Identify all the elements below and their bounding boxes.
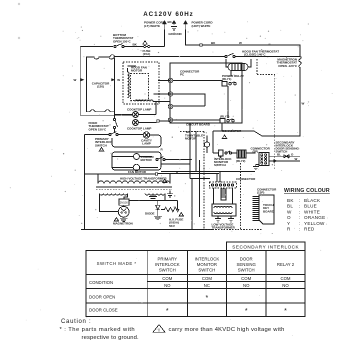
fan switch S3 xyxy=(156,157,165,161)
wire interlock feed xyxy=(85,129,115,135)
svg-text:W: W xyxy=(117,78,120,82)
warning triangle under board xyxy=(222,135,226,139)
warning triangle xyxy=(99,148,103,152)
power cord arrow right xyxy=(184,21,188,30)
svg-text:MOTOR: MOTOR xyxy=(185,137,197,141)
connector 6P dashed box xyxy=(210,182,237,188)
svg-text:RED: RED xyxy=(304,227,315,232)
svg-text:W: W xyxy=(74,78,77,82)
svg-text:Caution :: Caution : xyxy=(61,319,91,325)
primary interlock switch S2 xyxy=(109,132,118,136)
bottom border wire xyxy=(81,229,213,231)
wire relay1 to relay2 inside board xyxy=(227,86,229,118)
grounds under LV transformer xyxy=(215,216,234,222)
svg-text:(120): (120) xyxy=(97,85,104,89)
svg-text:(LT) WHITE: (LT) WHITE xyxy=(144,24,160,28)
bus wires to right section xyxy=(158,172,255,179)
svg-text:INTERLOCK: INTERLOCK xyxy=(195,257,220,262)
wire heater xyxy=(226,59,251,67)
svg-text::: : xyxy=(299,209,301,214)
wire node down xyxy=(85,173,156,175)
wire thermostat to right border xyxy=(235,47,300,57)
svg-text::: : xyxy=(299,198,301,203)
svg-text:* : The parts marked with: * : The parts marked with xyxy=(60,327,136,333)
svg-text:Y: Y xyxy=(203,167,205,171)
wire board to monitor row xyxy=(221,123,223,131)
svg-text:ORANGE: ORANGE xyxy=(304,215,325,220)
svg-text:W: W xyxy=(287,209,292,214)
wires connector to LV transformer xyxy=(214,172,233,205)
svg-text:NO: NO xyxy=(243,283,250,288)
svg-text:COOKTOP LAMP: COOKTOP LAMP xyxy=(127,127,151,131)
svg-text:*: * xyxy=(166,308,169,315)
connector pins on board edge xyxy=(168,78,172,122)
svg-text:Y: Y xyxy=(287,221,290,226)
svg-text:RELAY 2: RELAY 2 xyxy=(277,262,295,267)
scan dot 1 xyxy=(18,3,20,5)
hood fan motor coil horizontal xyxy=(135,100,153,101)
connector node xyxy=(157,120,160,123)
svg-text:OPEN -120°C: OPEN -120°C xyxy=(278,64,298,68)
svg-text:CONNECTOR: CONNECTOR xyxy=(236,177,256,181)
dashed horizontal partition xyxy=(257,74,275,76)
connector node xyxy=(155,173,158,176)
arrow into capacitor right xyxy=(111,78,115,81)
svg-text:SWITCH MADE *: SWITCH MADE * xyxy=(97,261,137,266)
svg-text:5KV: 5KV xyxy=(169,224,175,228)
svg-text:SWITCH: SWITCH xyxy=(95,143,107,147)
svg-text:WHITE: WHITE xyxy=(304,209,320,214)
lamp wires xyxy=(115,115,157,123)
vertical wire x192 xyxy=(190,123,196,230)
power relay RLY1 xyxy=(222,74,244,86)
svg-text:respective to ground.: respective to ground. xyxy=(82,335,140,341)
hood fan motor box xyxy=(123,62,159,104)
wire cap to magnetron xyxy=(123,205,125,206)
svg-text:*: * xyxy=(245,308,248,315)
heater oval hatched xyxy=(228,64,248,71)
arrow on lower wire xyxy=(273,159,277,162)
svg-text:DOOR OPEN: DOOR OPEN xyxy=(89,294,115,299)
svg-text:AC120V 60Hz: AC120V 60Hz xyxy=(143,11,194,18)
dashed vertical right of LV xyxy=(240,163,242,230)
svg-text:2M100: 2M100 xyxy=(120,201,128,205)
svg-text:GROUND: GROUND xyxy=(168,32,182,36)
cavity lamp L3 xyxy=(143,132,149,138)
wires motor to board xyxy=(128,66,171,102)
svg-text:PRIMARY: PRIMARY xyxy=(158,257,178,262)
hood fan motor inner box xyxy=(131,74,149,101)
svg-text:BK: BK xyxy=(287,198,294,203)
valve symbol on wire xyxy=(284,155,289,158)
svg-text:BL: BL xyxy=(287,204,293,209)
svg-text:MOTOR: MOTOR xyxy=(131,69,143,73)
HV capacitor box xyxy=(119,199,129,205)
svg-text:NC: NC xyxy=(204,283,210,288)
svg-text:BL: BL xyxy=(277,153,281,157)
svg-text:DOOR: DOOR xyxy=(240,257,253,262)
svg-text:DIODE: DIODE xyxy=(145,212,155,216)
svg-text:(5P): (5P) xyxy=(253,150,259,154)
svg-text:BLACK: BLACK xyxy=(304,198,321,203)
svg-text:OPEN 150°C: OPEN 150°C xyxy=(89,127,108,131)
ground symbol xyxy=(171,27,177,31)
transformer T1 primary winding xyxy=(98,181,170,184)
table row1 labels xyxy=(89,257,295,316)
resistor R1 zigzag xyxy=(161,207,179,211)
svg-text:NO: NO xyxy=(282,283,289,288)
svg-text:OPEN 150°C: OPEN 150°C xyxy=(113,39,132,43)
power cord arrow left xyxy=(163,21,167,30)
relay2 box hatched xyxy=(237,150,246,158)
ground under secondary 2 xyxy=(149,197,157,201)
svg-text:COM: COM xyxy=(241,276,251,281)
wire motor loop xyxy=(112,152,161,170)
svg-text:BOARD: BOARD xyxy=(263,209,275,213)
svg-text::: : xyxy=(299,221,301,226)
svg-text:W: W xyxy=(302,102,305,106)
svg-text:O: O xyxy=(287,215,291,220)
svg-text:SWITCH: SWITCH xyxy=(214,163,226,167)
svg-text:NO: NO xyxy=(164,283,171,288)
wire cavity lamp loop xyxy=(112,135,161,148)
junction node bumps xyxy=(110,55,115,119)
bottom thermostat TH1 xyxy=(114,44,124,48)
svg-text::: : xyxy=(299,227,301,232)
circuit board box xyxy=(170,63,242,123)
svg-text:(RLY1): (RLY1) xyxy=(222,77,231,81)
svg-text:*: * xyxy=(284,308,287,315)
ground under magnetron xyxy=(120,217,127,221)
hood fan thermostat TH2 xyxy=(225,53,235,57)
caution warning triangle xyxy=(153,325,165,333)
outer loop left border xyxy=(80,47,132,116)
fan motor M2 xyxy=(133,164,139,170)
board interior traces xyxy=(173,71,231,121)
svg-text:BLUE: BLUE xyxy=(304,204,317,209)
svg-text:WIRING COLOUR: WIRING COLOUR xyxy=(284,188,330,194)
svg-text:W: W xyxy=(295,157,298,161)
svg-text:(RLY2): (RLY2) xyxy=(236,159,245,163)
junction dot monitor xyxy=(220,156,222,158)
wire right feed xyxy=(186,30,200,46)
scan dot 2 xyxy=(18,37,20,39)
svg-text:TRANSFORMER: TRANSFORMER xyxy=(212,226,236,230)
svg-text:SWITCH: SWITCH xyxy=(159,267,176,272)
ground under connector xyxy=(253,165,259,170)
stirrer motor M1 xyxy=(134,154,140,160)
table secondary interlock header xyxy=(226,242,305,251)
transformer secondary winding 1 xyxy=(99,193,127,195)
ribbon teeth xyxy=(253,197,260,221)
door sensing connector box xyxy=(259,153,269,166)
svg-text:COOKTOP LAMP: COOKTOP LAMP xyxy=(127,108,151,112)
svg-text:COM: COM xyxy=(162,276,172,281)
svg-text:SENSING: SENSING xyxy=(237,262,257,267)
svg-text:SWITCH: SWITCH xyxy=(238,267,255,272)
svg-text:(RLY2): (RLY2) xyxy=(220,115,229,119)
vertical wire x200 xyxy=(199,160,201,217)
turntable motor TTM xyxy=(204,136,209,154)
left border wire lower xyxy=(84,135,86,230)
ground arrow xyxy=(172,21,176,26)
svg-text:R: R xyxy=(287,227,291,232)
svg-text:(15A): (15A) xyxy=(143,52,151,56)
right border wire xyxy=(213,68,300,136)
LV transformer T2 xyxy=(212,204,236,216)
wires monitor row xyxy=(213,131,255,153)
svg-text:SWITCH: SWITCH xyxy=(198,267,215,272)
lamp selector switch S1 xyxy=(114,118,118,128)
cooktop lamp L1 xyxy=(133,112,139,118)
magnetron thermostat TH3 on right border xyxy=(299,57,302,69)
hood fan motor coil vertical xyxy=(128,72,130,98)
svg-text:CONNECTOR: CONNECTOR xyxy=(222,129,242,133)
transformer core xyxy=(96,186,172,187)
svg-text:MONITOR: MONITOR xyxy=(197,262,217,267)
capacitor C1 box xyxy=(86,57,114,112)
wire top left run xyxy=(80,46,113,48)
HV rail wire xyxy=(129,201,178,210)
fuse F1 15A xyxy=(144,45,150,47)
wire fuse to arrow xyxy=(150,30,165,47)
svg-text:(HOT) WHITE: (HOT) WHITE xyxy=(192,24,211,28)
transformer primary feeds xyxy=(98,174,170,184)
HV diode D1 xyxy=(154,201,162,220)
arrow into capacitor left xyxy=(81,78,85,81)
dashed bottom border xyxy=(204,229,262,231)
svg-text:(13P): (13P) xyxy=(257,191,264,195)
dashed vertical partition 1 xyxy=(256,59,258,74)
wire switch to bus xyxy=(161,160,192,165)
jumper block hatched xyxy=(221,189,226,200)
svg-text:SECONDARY INTERLOCK: SECONDARY INTERLOCK xyxy=(232,245,299,250)
wires from connector xyxy=(269,156,300,161)
svg-text::: : xyxy=(299,204,301,209)
svg-text:MOTOR: MOTOR xyxy=(141,158,153,162)
warning triangle diode xyxy=(179,213,183,217)
magnetron V1 xyxy=(118,206,129,217)
svg-text:DOOR CLOSE: DOOR CLOSE xyxy=(89,308,118,313)
wire colour tick labels xyxy=(161,41,243,174)
svg-text:YELLOW: YELLOW xyxy=(304,221,325,226)
wire top right drop xyxy=(202,45,300,47)
svg-text:*: * xyxy=(206,295,209,302)
warning triangle fuse xyxy=(143,41,147,44)
svg-text:CONDITION: CONDITION xyxy=(89,280,113,285)
svg-text::: : xyxy=(299,215,301,220)
dashed vertical partition 2 xyxy=(274,75,276,170)
table grid xyxy=(86,251,305,317)
relay RLY2 on board xyxy=(220,115,234,124)
warning triangle transformer xyxy=(163,179,167,183)
svg-text:carry more than 4KVDC high vol: carry more than 4KVDC high voltage with xyxy=(169,327,285,333)
svg-text:COM: COM xyxy=(280,276,290,281)
svg-text:FAN MOTOR: FAN MOTOR xyxy=(128,170,147,174)
transformer secondary winding 2 xyxy=(145,193,165,195)
wire lamp bus xyxy=(156,102,170,122)
connector circle node xyxy=(200,44,203,47)
cooktop lamp L2 xyxy=(133,120,139,126)
svg-text:COM: COM xyxy=(202,276,212,281)
svg-text:HIGH VOLTAGE TRANSFORMER: HIGH VOLTAGE TRANSFORMER xyxy=(120,177,167,181)
svg-text:INTERLOCK: INTERLOCK xyxy=(155,262,180,267)
monitor switch S4 xyxy=(219,150,232,156)
warning triangle magnetron xyxy=(114,218,118,222)
secondary taps xyxy=(99,193,165,211)
svg-text:MAGNETRON: MAGNETRON xyxy=(113,222,133,226)
svg-text:LAMP: LAMP xyxy=(142,142,151,146)
wire thermostat to fuse xyxy=(124,46,143,48)
legend entries xyxy=(287,198,325,232)
dashed vertical left of LV xyxy=(180,132,204,230)
touch key board box xyxy=(259,195,274,224)
wire lamp junction to thermostat xyxy=(115,56,225,58)
ground right of secondary 2 xyxy=(167,191,173,198)
transformer core dashes xyxy=(96,189,172,191)
